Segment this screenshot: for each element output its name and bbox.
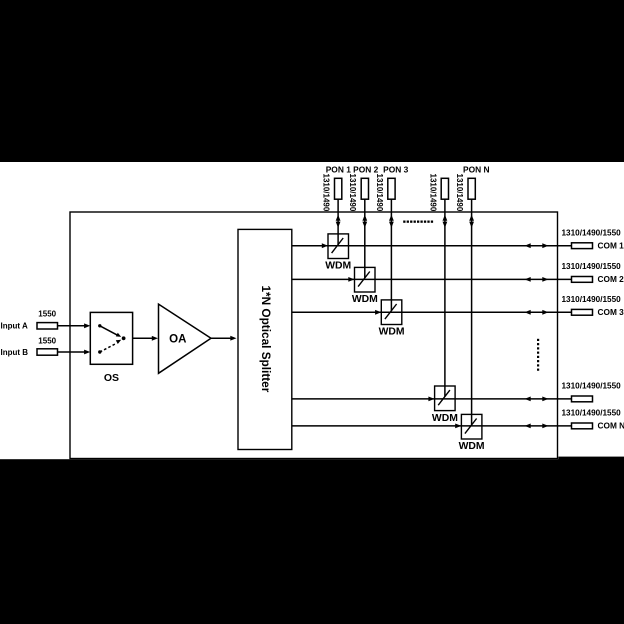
wire Input A to OS <box>58 325 87 327</box>
COM port rectangle 4 <box>572 396 593 402</box>
PON line 2 vertical wire <box>364 199 366 278</box>
PON line 3 vertical wire <box>390 199 392 311</box>
arrow into WDM2 <box>348 277 354 282</box>
right arrow on COM wire 2 <box>542 277 548 282</box>
PON line 1 up arrow <box>336 215 341 221</box>
wire splitter output 4 <box>292 398 435 400</box>
left arrow on COM wire 4 <box>525 397 531 402</box>
arrow into OS from Input A <box>84 323 90 328</box>
svg-text:OA: OA <box>169 333 186 345</box>
OS node input A <box>98 324 101 327</box>
svg-text:1310/1490: 1310/1490 <box>455 174 464 212</box>
svg-text:1*N Optical Splitter: 1*N Optical Splitter <box>259 285 273 392</box>
WDM5 box <box>461 414 482 439</box>
COM port rectangle 5 <box>572 423 593 429</box>
PON filter rectangle 1 <box>335 178 342 199</box>
op-amp style amplifier OA triangle <box>159 304 212 373</box>
Input A port rectangle <box>37 323 58 329</box>
PON line 3 up arrow <box>389 215 394 221</box>
arrow into splitter <box>230 336 236 341</box>
svg-text:WDM: WDM <box>325 261 351 272</box>
arrow into WDM3 <box>375 310 381 315</box>
svg-text:PON 1: PON 1 <box>326 165 351 175</box>
black step notch bottom-right <box>558 457 624 460</box>
PON line 5 up arrow <box>469 215 474 221</box>
OS common output node <box>122 336 126 340</box>
WDM5 diagonal filter line <box>465 419 477 434</box>
PON line 4 down arrow <box>443 222 448 228</box>
wire WDM3 through box to COM port <box>381 311 571 313</box>
optical switch OS box <box>90 312 132 364</box>
svg-text:WDM: WDM <box>379 327 405 338</box>
right arrow on COM wire 3 <box>542 310 548 315</box>
white panel background <box>0 162 624 459</box>
outer system frame <box>70 212 558 459</box>
arrow on OS path B <box>116 340 121 344</box>
svg-text:1310/1490: 1310/1490 <box>348 174 357 212</box>
svg-text:COM N: COM N <box>598 421 624 431</box>
WDM4 box <box>435 386 456 411</box>
svg-text:1310/1490: 1310/1490 <box>322 174 331 212</box>
svg-text:1310/1490/1550: 1310/1490/1550 <box>562 262 622 271</box>
svg-text:1310/1490/1550: 1310/1490/1550 <box>562 295 622 304</box>
svg-text:OS: OS <box>104 372 119 384</box>
svg-text:1550: 1550 <box>38 310 56 319</box>
svg-text:1310/1490/1550: 1310/1490/1550 <box>562 229 622 238</box>
svg-text:COM 1: COM 1 <box>598 241 624 251</box>
PON filter rectangle 2 <box>361 178 368 199</box>
PON line 5 down arrow <box>469 222 474 228</box>
svg-text:1550: 1550 <box>38 337 56 346</box>
OS selected path A (solid) <box>100 326 117 335</box>
vertical ellipsis dots between COM 3 and COM N rows <box>537 339 539 371</box>
svg-text:1310/1490/1550: 1310/1490/1550 <box>562 409 622 418</box>
OS standby path B (dashed) <box>100 343 117 352</box>
wire WDM4 through box to COM port <box>435 398 572 400</box>
wire Input B to OS <box>58 351 87 353</box>
svg-text:PON 3: PON 3 <box>383 165 408 175</box>
OS node input B <box>98 350 101 353</box>
PON filter rectangle 3 <box>388 178 395 199</box>
PON line 2 up arrow <box>362 215 367 221</box>
arrow into WDM4 <box>428 397 434 402</box>
svg-text:WDM: WDM <box>432 413 458 424</box>
WDM1 box <box>328 234 349 259</box>
WDM2 diagonal filter line <box>358 272 370 287</box>
left arrow on COM wire 5 <box>525 424 531 429</box>
arrow into WDM1 <box>322 243 328 248</box>
svg-text:WDM: WDM <box>352 294 378 305</box>
arrow into WDM5 <box>455 424 461 429</box>
wire WDM5 through box to COM port <box>461 425 571 427</box>
svg-text:Input B: Input B <box>1 348 29 357</box>
PON filter rectangle 5 <box>468 178 475 199</box>
wire splitter output 1 <box>292 245 328 247</box>
svg-text:1310/1490/1550: 1310/1490/1550 <box>562 382 622 391</box>
svg-text:Input A: Input A <box>1 322 28 331</box>
COM port rectangle 2 <box>572 277 593 283</box>
svg-text:1310/1490: 1310/1490 <box>375 174 384 212</box>
PON line 4 vertical wire <box>444 199 446 397</box>
wire WDM2 through box to COM port <box>355 278 572 280</box>
right arrow on COM wire 5 <box>542 424 548 429</box>
WDM4 diagonal filter line <box>438 390 450 405</box>
PON line 1 vertical wire <box>337 199 339 245</box>
Input B port rectangle <box>37 349 58 355</box>
wire WDM1 through box to COM port <box>328 245 572 247</box>
svg-text:COM 3: COM 3 <box>598 307 624 317</box>
svg-text:PON 2: PON 2 <box>353 165 378 175</box>
WDM1 diagonal filter line <box>332 238 344 253</box>
PON line 3 down arrow <box>389 222 394 228</box>
WDM3 box <box>381 300 402 325</box>
wire OS to OA <box>133 337 154 339</box>
1*N optical splitter box <box>238 229 292 449</box>
PON line 4 up arrow <box>443 215 448 221</box>
svg-text:1310/1490: 1310/1490 <box>428 174 437 212</box>
right arrow on COM wire 1 <box>542 243 548 248</box>
left arrow on COM wire 2 <box>525 277 531 282</box>
wire OA to splitter <box>211 337 232 339</box>
svg-text:PON N: PON N <box>463 165 490 175</box>
COM port rectangle 3 <box>572 309 593 315</box>
WDM3 diagonal filter line <box>385 304 397 319</box>
right arrow on COM wire 4 <box>542 397 548 402</box>
PON filter rectangle 4 <box>441 178 448 199</box>
PON line 1 down arrow <box>336 222 341 228</box>
left arrow on COM wire 3 <box>525 310 531 315</box>
PON line 2 down arrow <box>362 222 367 228</box>
wire splitter output 3 <box>292 311 382 313</box>
COM port rectangle 1 <box>572 243 593 249</box>
arrow into OS from Input B <box>84 350 90 355</box>
WDM2 box <box>355 267 376 292</box>
svg-text:COM 2: COM 2 <box>598 274 624 284</box>
svg-text:WDM: WDM <box>459 441 485 452</box>
PON line 5 vertical wire <box>471 199 473 425</box>
left arrow on COM wire 1 <box>525 243 531 248</box>
horizontal ellipsis dots between PON 3 and PON N <box>403 221 433 223</box>
arrow on OS path A <box>116 333 121 337</box>
wire splitter output 5 <box>292 425 462 427</box>
wire splitter output 2 <box>292 278 355 280</box>
arrow into OA <box>152 336 158 341</box>
